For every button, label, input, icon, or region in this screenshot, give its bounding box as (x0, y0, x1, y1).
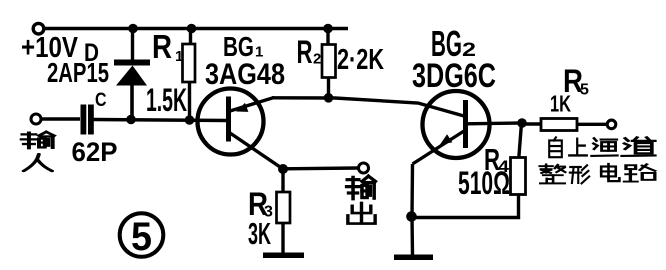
wire R2 top (326, 29, 329, 45)
terminal input (31, 114, 41, 124)
junction diode-rail (128, 24, 138, 34)
label 输入 (22, 132, 54, 148)
svg-text:2·2K: 2·2K (337, 44, 384, 76)
wire R3 bottom (281, 223, 284, 253)
svg-text:R: R (152, 28, 172, 65)
resistor R2 (322, 45, 336, 78)
figure number 5 (120, 213, 164, 257)
transistor BG1 collector (230, 133, 283, 169)
junction R1-rail (187, 24, 197, 34)
wire R2 bottom (327, 78, 330, 99)
wire node to R5 (522, 122, 541, 125)
label 输出 (347, 176, 376, 199)
wire R4 bottom (412, 195, 519, 218)
wire base BG1 (94, 120, 228, 121)
junction diode-base (126, 115, 136, 125)
transistor BG2 body (423, 91, 490, 158)
wire input (41, 117, 80, 120)
transistor BG2 collector (466, 121, 522, 125)
svg-text:3AG48: 3AG48 (205, 58, 285, 91)
label to shaping circuit line1 自上通道 (549, 137, 562, 157)
ground BG2 (394, 255, 433, 261)
ground BG1/R3 (263, 253, 304, 259)
transistor BG1 base bar (226, 97, 231, 142)
svg-text:5: 5 (580, 82, 589, 99)
svg-text:2: 2 (313, 51, 321, 68)
wire R1 bottom (188, 82, 191, 120)
diode D cathode bar (114, 60, 150, 66)
wire BG2 emitter down (410, 164, 414, 217)
svg-text:3DG6C: 3DG6C (412, 57, 496, 95)
wire output (283, 166, 358, 170)
capacitor C plate1 (81, 105, 87, 135)
junction R2-rail (323, 24, 333, 34)
resistor R1 (183, 44, 196, 82)
svg-text:1: 1 (175, 48, 183, 65)
resistor R3 (277, 192, 291, 223)
svg-text:5: 5 (131, 215, 152, 259)
transistor BG2 base bar (463, 100, 468, 148)
transistor BG2 emitter (413, 131, 465, 164)
transistor BG1 emitter (230, 98, 274, 112)
junction BG2 collector node (517, 118, 527, 128)
wire collector to R3 (281, 169, 284, 192)
transistor BG1 body (198, 89, 264, 155)
junction R2-coupling (324, 93, 334, 103)
svg-text:3K: 3K (248, 216, 271, 251)
wire node to R4 (519, 123, 522, 158)
junction R1-base (185, 115, 195, 125)
wire R5 right (577, 123, 607, 126)
svg-text:C: C (95, 90, 107, 111)
svg-text:1K: 1K (550, 91, 571, 117)
resistor R4 (511, 158, 526, 195)
svg-text:510Ω: 510Ω (458, 165, 510, 201)
label to shaping circuit line2 整形电路 (540, 164, 566, 183)
capacitor C plate2 (88, 105, 94, 135)
svg-text:62P: 62P (72, 137, 118, 167)
wire diode top (131, 29, 134, 61)
svg-text:1.5K: 1.5K (146, 82, 187, 118)
svg-text:2AP15: 2AP15 (47, 57, 109, 88)
wire to ground 2 (410, 217, 414, 256)
junction BG1 collector node (278, 164, 288, 174)
wire R1 top (189, 29, 192, 45)
wire top rail (44, 27, 348, 30)
diode D anode triangle (116, 66, 147, 86)
terminal right (607, 120, 616, 129)
junction emitter node (406, 211, 417, 222)
wire diode bottom (130, 86, 134, 121)
terminal +10V (33, 23, 44, 34)
wire emitter to R2 node (272, 98, 464, 116)
svg-text:R: R (297, 34, 313, 70)
resistor R5 (541, 119, 577, 131)
terminal output (359, 163, 369, 173)
